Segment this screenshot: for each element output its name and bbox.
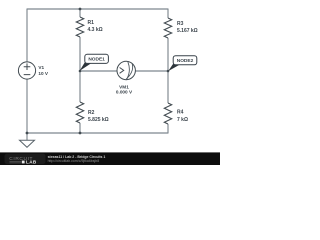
footer logo LAB line [10,162,22,163]
node NODE2 label [168,56,197,71]
resistor R1 [76,17,83,37]
resistor R3 [164,18,171,38]
wire voltmeter left [80,70,117,72]
junction dot bottom left [26,132,29,135]
wire R3-R4 middle segment [167,38,169,103]
wire left branch lower [26,79,28,140]
junction dot bottom middle [79,132,82,135]
wire R1-R2 middle segment [79,37,81,102]
voltmeter VM1 [117,61,135,79]
junction dot node B [167,70,170,73]
node NODE1 label [80,54,109,71]
resistor R2 [76,102,83,123]
wire top rail [27,8,168,10]
junction dot top middle [79,8,82,11]
voltage source V1 [18,62,35,79]
svg-text:10 V: 10 V [38,71,49,76]
svg-text:http://circuitlab.com/c/5jtka6: http://circuitlab.com/c/5jtka6bsjb8 [48,159,100,163]
wire R3 top lead [167,9,169,19]
svg-text:5.825 kΩ: 5.825 kΩ [88,117,109,123]
svg-text:NODE2: NODE2 [177,58,194,64]
footer logo LAB square [22,161,25,164]
svg-text:4.3 kΩ: 4.3 kΩ [88,27,103,33]
resistor R4 [164,103,171,124]
wire R2 bottom lead [79,123,81,133]
svg-text:R3: R3 [177,21,184,27]
wire bottom rail [27,132,168,134]
svg-text:R1: R1 [88,20,95,26]
wire voltmeter right [135,70,168,72]
wire R4 bottom lead [167,124,169,134]
svg-text:7 kΩ: 7 kΩ [177,117,188,123]
junction dot node A [79,70,82,73]
svg-text:LAB: LAB [26,160,37,165]
svg-text:0.000 V: 0.000 V [116,90,133,95]
footer bar [0,152,220,165]
wire R1 top lead [79,9,81,17]
svg-text:R2: R2 [88,110,95,116]
footer logo badge [5,154,46,164]
svg-text:R4: R4 [177,110,184,116]
wire left branch upper [26,9,28,63]
ground [20,140,35,147]
svg-text:NODE1: NODE1 [88,57,105,63]
svg-text:V1: V1 [38,65,44,70]
svg-text:5.167 kΩ: 5.167 kΩ [177,28,198,34]
